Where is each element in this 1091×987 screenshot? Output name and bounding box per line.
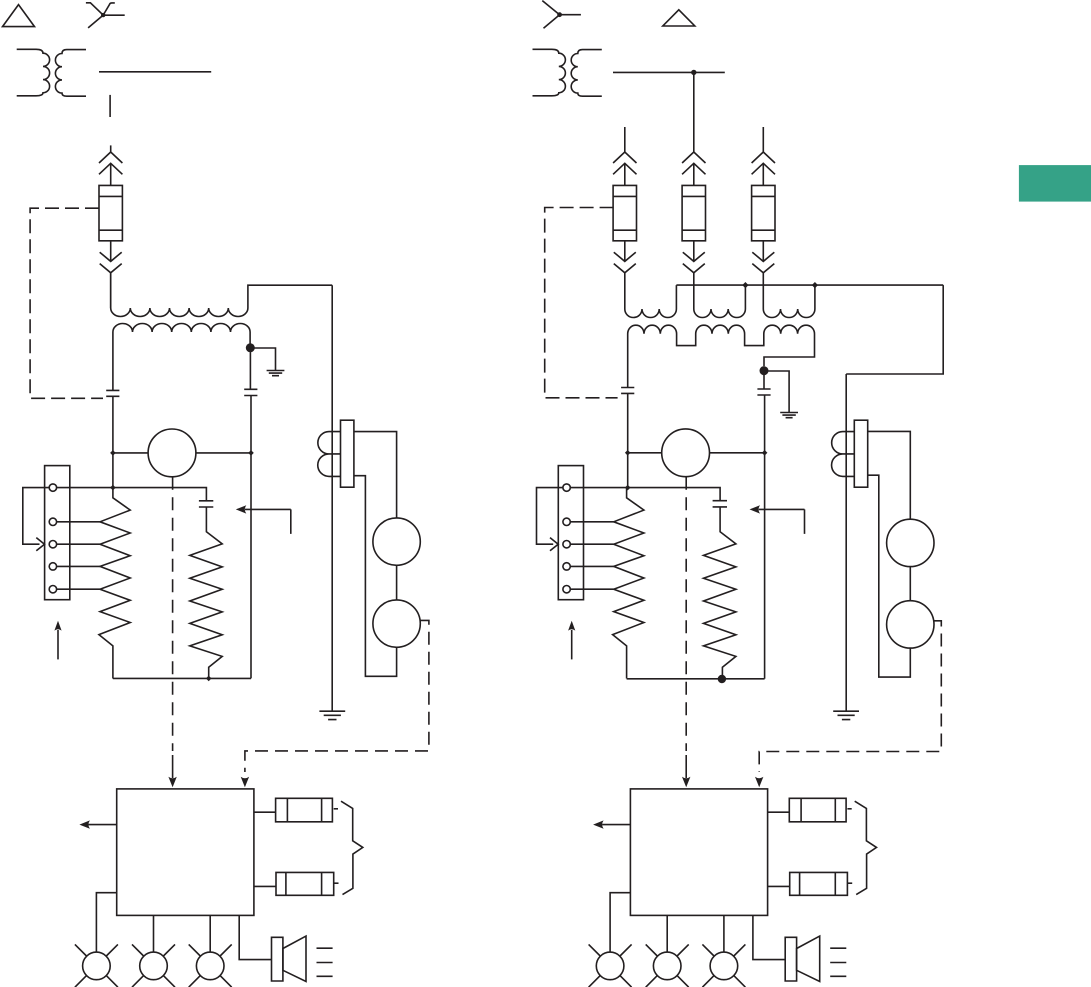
field-adjust arrowhead (right) <box>750 505 761 513</box>
junction diamond (primary bus c) <box>812 282 818 288</box>
junction diamond (right motor line, left) <box>625 450 631 456</box>
heater element H2 (left) <box>276 872 334 895</box>
transformer T2 (right station service) <box>533 49 602 96</box>
wire (neutral to ground, left) <box>250 348 275 370</box>
bus line (left) <box>99 71 211 73</box>
capacitor C2 (left) <box>244 389 257 395</box>
meter circle A2 (left) <box>373 600 420 647</box>
wire net-A vertical (left) <box>112 396 114 487</box>
dashed shaft centerline (right) <box>685 477 687 751</box>
bus stub (left) <box>109 95 111 117</box>
drawout chevrons top (F2c) <box>752 152 775 174</box>
wire (neutral dot to C5) <box>763 375 765 389</box>
wire (neutral to ground, right) <box>764 371 789 412</box>
ground - neutral (right) <box>780 413 798 418</box>
wire (line-side stub F2a) <box>624 127 626 152</box>
drawout chevrons top (F1) <box>99 152 122 174</box>
tap selector wiper arrowhead (left) <box>36 538 44 551</box>
tap terminal 3 (right) <box>563 541 570 548</box>
wire (line-side stub F1) <box>110 145 112 152</box>
indicator lamp 2 (left) <box>132 944 175 987</box>
CT2 secondary lead bottom <box>868 475 911 677</box>
wire (bus to CT conductor, right) <box>846 285 943 374</box>
output arrowhead (right) <box>593 820 604 828</box>
fuse F2b <box>682 185 705 240</box>
drawout chevrons top (F2b) <box>682 152 705 174</box>
drawout chevrons bottom (F2c) <box>752 252 774 273</box>
tap terminal 5 (right) <box>563 586 570 593</box>
wire (F1 to reactor) <box>110 273 112 308</box>
delta symbol (left legend) <box>3 5 35 27</box>
brace (right) <box>855 801 877 894</box>
terminal tick H2 (left) <box>334 882 338 884</box>
dashed control link (right fuse) <box>545 208 618 398</box>
wire (F2a) <box>624 163 626 185</box>
junction diamond (primary bus b) <box>742 282 748 288</box>
wire to heater H2 (left) <box>254 885 276 887</box>
wire (motor line right segment, right) <box>710 452 765 454</box>
highlight marker (green swatch) <box>1019 165 1091 202</box>
junction dot - neutral (left) <box>246 343 255 352</box>
tap terminal 2 (right) <box>563 518 570 525</box>
machine M2 circle (right) <box>662 429 710 477</box>
3-phase reactor secondary winding (right) <box>628 325 815 387</box>
field-adjust arrow wire (left) <box>245 509 291 534</box>
wire (motor line left segment) <box>113 452 148 454</box>
wire (F2b) <box>693 241 695 261</box>
tap terminal 1 (right) <box>563 484 570 491</box>
CT1 secondary lead bottom <box>354 476 397 677</box>
wire (motor line left segment, right) <box>628 452 662 454</box>
wire to lamp 2 (left) <box>153 915 155 951</box>
CT CT2 winding loops <box>832 432 855 477</box>
reactor L1 secondary winding (left) <box>113 324 250 391</box>
wire net-A vertical (right) <box>627 393 629 487</box>
tap leads 2-5 (left) <box>57 522 100 589</box>
meter circle A1 (left) <box>373 518 420 565</box>
reactor L1 primary winding (left) <box>111 273 248 317</box>
wire (line-side stub F2c) <box>762 127 764 152</box>
raise direction arrow shaft (right) <box>571 630 573 659</box>
capacitor C5 (right) <box>757 389 770 395</box>
wye neutral dot (right legend) <box>557 12 562 17</box>
fuse F2a <box>613 185 636 240</box>
alarm horn (right) <box>785 936 820 981</box>
brace (left) <box>341 801 363 894</box>
dashed control link from meter (left) <box>245 620 429 772</box>
ground - CT conductor (left) <box>319 711 345 719</box>
current transformer CT2 core bar <box>854 420 867 487</box>
indicator lamp 2 (right) <box>646 944 689 987</box>
capacitor C1 (left) <box>106 390 119 396</box>
dashed control link from meter (right) <box>759 621 941 772</box>
meter circle A3 (right) <box>887 519 934 566</box>
3-phase reactor primary winding a (right) <box>625 273 677 318</box>
raise direction arrow shaft (left) <box>57 630 59 659</box>
resistor R4 (zigzag) <box>704 507 736 679</box>
wire net-B vertical (right) <box>764 395 766 679</box>
bus junction dot (right) <box>691 70 696 75</box>
wire between meters (left) <box>396 565 398 600</box>
wire (F2c) <box>762 163 764 185</box>
tap terminal 1 (left) <box>49 484 56 491</box>
field-adjust arrow wire (right) <box>759 509 805 534</box>
wye symbol (left legend) <box>86 3 125 28</box>
wire (F2b) <box>693 163 695 185</box>
wire to lamp 3 (left) <box>209 915 211 951</box>
ground - neutral (left) <box>267 371 285 376</box>
indicator lamp 1 (right) <box>589 944 632 987</box>
bottom line (left) <box>113 677 251 679</box>
horn sound lines (right) <box>830 948 846 976</box>
drawout chevrons bottom (F2b) <box>683 252 705 273</box>
junction dot - neutral (right) <box>760 366 769 375</box>
junction diamond (right motor line, right) <box>762 450 768 456</box>
arrowhead into control box (right) <box>682 777 690 788</box>
wire (winding to CT conductor, left) <box>248 285 332 308</box>
horn sound lines (left) <box>317 948 333 976</box>
terminal tick H1 (left) <box>334 808 338 810</box>
wire to heater H1 (left) <box>254 811 276 813</box>
tap terminal 4 (right) <box>563 563 570 570</box>
wire (F1) <box>110 241 112 261</box>
CT CT1 winding loops <box>318 432 341 477</box>
wire (F2c) <box>762 241 764 261</box>
capacitor C4 (right) <box>621 388 634 394</box>
wire to heater H1 (right) <box>768 811 790 813</box>
bottom line (right) <box>627 678 765 680</box>
output arrowhead (left) <box>79 820 90 828</box>
heater element H1 (left) <box>276 798 333 822</box>
tap lead 1 / top tap line (right) <box>570 488 720 501</box>
drawout chevrons bottom (F2a) <box>614 252 636 273</box>
3-phase reactor primary winding b (right) <box>694 273 746 318</box>
dashed shaft centerline (left) <box>172 477 174 751</box>
junction diamond (top tap line, right) <box>625 485 631 491</box>
CT1 secondary lead top <box>354 432 397 518</box>
tap selector wiper path (right) <box>537 488 563 545</box>
delta symbol (right legend) <box>663 10 695 26</box>
heater element H2 (right) <box>790 872 848 895</box>
wire to lamp 1 (left) <box>96 893 116 953</box>
wire to heater H2 (right) <box>768 885 790 887</box>
transformer T1 (left station service) <box>17 49 86 96</box>
indicator lamp 3 (left) <box>189 944 232 987</box>
indicator lamp 1 (left) <box>75 944 118 987</box>
junction diamond (bottom line, left) <box>206 676 212 682</box>
heater element H1 (right) <box>789 798 846 822</box>
fuse F2c <box>752 185 775 240</box>
ground - CT conductor (right) <box>833 711 859 719</box>
terminal tick H1 (right) <box>847 808 851 810</box>
tap terminal 2 (left) <box>49 518 56 525</box>
CT primary conductor (left) <box>331 285 333 711</box>
raise direction arrowhead (left) <box>54 621 61 631</box>
wire (neutral dot to C2) <box>249 352 251 389</box>
wire (F1) <box>110 163 112 185</box>
machine M1 circle (left) <box>148 429 196 477</box>
3-phase reactor primary winding c (right) <box>763 273 815 318</box>
primary bus (right) <box>676 284 943 286</box>
tap selector body (left) <box>45 466 70 600</box>
rheostat R1 (tapped zigzag) <box>99 488 130 679</box>
junction diamond (left motor line, right) <box>248 450 254 456</box>
dashed control link (left fuse) <box>30 208 103 398</box>
tap selector wiper path (left) <box>23 488 49 545</box>
wye neutral dot (left legend) <box>101 13 105 17</box>
wire to horn (right) <box>753 915 785 959</box>
CT2 secondary lead top <box>868 431 911 519</box>
arrowhead into control box (left) <box>168 777 176 788</box>
wire (arrow shaft into control box, left) <box>172 755 174 778</box>
terminal tick H2 (right) <box>848 882 852 884</box>
raise direction arrowhead (right) <box>568 621 575 631</box>
capacitor C6 (right) <box>713 501 727 507</box>
arrowhead into control box (left, meter link) <box>241 777 249 788</box>
resistor R2 (zigzag) <box>190 507 222 679</box>
tap lead 1 / top tap line (left) <box>57 488 207 501</box>
wire (bus dot to F2) <box>693 72 695 152</box>
arrowhead into control box (right, meter link) <box>755 777 763 788</box>
tap selector wiper arrowhead (right) <box>550 538 558 551</box>
current transformer CT1 core bar <box>341 420 354 487</box>
output arrow wire (left) <box>88 824 116 826</box>
tap selector body (right) <box>558 466 583 600</box>
control box (right) <box>630 789 767 916</box>
tap leads 2-5 (right) <box>570 522 613 589</box>
tap terminal 3 (left) <box>49 541 56 548</box>
drawout chevrons top (F2a) <box>613 152 636 174</box>
wire to lamp 1 (right) <box>610 893 630 953</box>
wire (motor line right segment) <box>196 452 251 454</box>
wire to horn (left) <box>239 915 271 959</box>
fuse F1 <box>99 185 122 240</box>
tap terminal 4 (left) <box>49 563 56 570</box>
junction diamond (top tap line, left) <box>110 485 116 491</box>
indicator lamp 3 (right) <box>702 944 745 987</box>
wire to lamp 2 (right) <box>666 915 668 951</box>
output arrow wire (right) <box>602 824 630 826</box>
wire (F2a) <box>624 241 626 261</box>
control box (left) <box>117 789 254 916</box>
bus line (right) <box>613 71 725 73</box>
rheostat R3 (tapped zigzag) <box>613 488 644 679</box>
junction dot (bottom line, right) <box>718 675 726 683</box>
junction diamond (left motor line, left) <box>110 450 116 456</box>
tap terminal 5 (left) <box>49 586 56 593</box>
drawout chevrons bottom (F1) <box>100 252 122 273</box>
wire to lamp 3 (right) <box>723 915 725 951</box>
wire (arrow shaft into control box, right) <box>685 755 687 778</box>
wire net-B vertical (left) <box>250 396 252 679</box>
wire between meters (right) <box>909 567 911 601</box>
field-adjust arrowhead (left) <box>236 505 247 513</box>
CT primary conductor (right) <box>845 374 847 711</box>
capacitor C3 (left) <box>199 501 213 507</box>
meter circle A4 (right) <box>887 601 934 648</box>
alarm horn (left) <box>272 936 307 981</box>
wye symbol (right legend) <box>542 1 581 29</box>
